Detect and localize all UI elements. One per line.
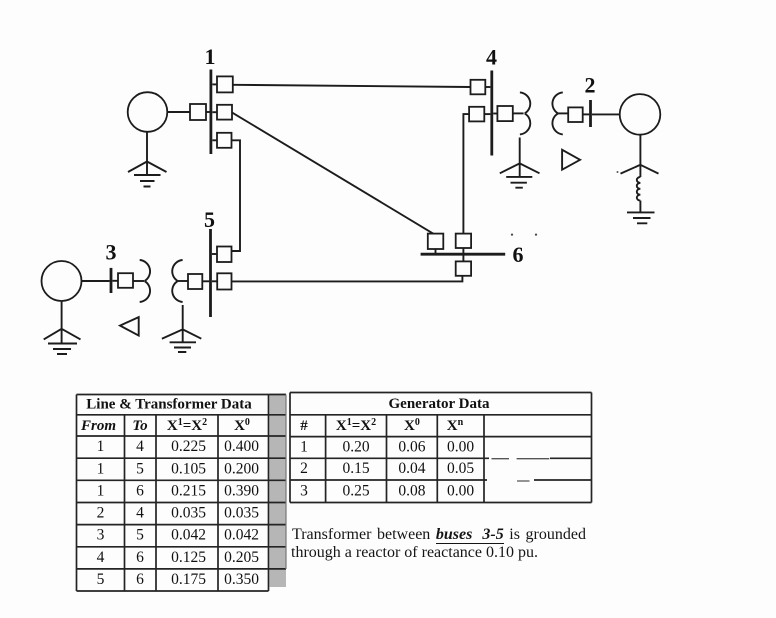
svg-text:0.390: 0.390 [224, 482, 259, 499]
svg-text:5: 5 [136, 527, 144, 544]
svg-text:1: 1 [300, 439, 308, 456]
breaker 1-4 [217, 76, 233, 92]
breaker 6-5 [456, 261, 471, 275]
transformer T42 winding B (bus 2 side) [552, 92, 562, 134]
white-out smudge over row line (scan artifact) [487, 453, 550, 486]
svg-text:1: 1 [97, 438, 105, 455]
svg-text:3: 3 [300, 482, 308, 499]
wire breaker to transformer T35 [133, 280, 144, 282]
svg-text:4: 4 [486, 45, 497, 70]
svg-text:0.00: 0.00 [447, 439, 474, 456]
wire stub breaker 4-1 to bus4 [485, 86, 490, 88]
svg-text:3: 3 [106, 240, 117, 265]
svg-text:2: 2 [97, 505, 105, 522]
svg-text:X0: X0 [234, 417, 250, 434]
ground (generator G2, grounded through reactor) [621, 135, 659, 177]
left table text [80, 397, 259, 589]
svg-text:5: 5 [97, 571, 105, 588]
breaker 1-5 [217, 133, 232, 148]
left table grid: Line & Transformer Data [77, 395, 287, 592]
svg-text:1: 1 [205, 44, 216, 69]
right table grid: Generator Data [290, 393, 592, 503]
svg-text:0.035: 0.035 [224, 505, 259, 522]
transformer T42 winding A (bus 4 side) [520, 92, 530, 134]
bus 5 [209, 229, 212, 317]
bus 6 [421, 253, 506, 256]
wire stub breaker to bus 2 [583, 113, 590, 115]
svg-text:0.25: 0.25 [342, 482, 369, 499]
wire line 1-6 (diagonal) [232, 112, 434, 233]
svg-text:0.225: 0.225 [171, 438, 206, 455]
generator G3 [42, 261, 82, 301]
ground (generator G3, wye grounded) [44, 301, 81, 354]
wire bus 2 to generator G2 [592, 113, 620, 115]
ground (generator G1, wye grounded) [128, 132, 167, 187]
wire breaker to bus 1 [206, 111, 210, 113]
wire stub bus1 to breaker 1-5 [212, 139, 217, 141]
transformer T35 winding A (bus 3 side) [140, 260, 150, 302]
svg-text:X0: X0 [404, 417, 420, 434]
svg-text:X1=X2: X1=X2 [336, 417, 376, 434]
breaker 1-6 [217, 105, 232, 120]
wire stub bus1 to breaker 1-4 [212, 83, 217, 85]
svg-text:6: 6 [513, 242, 524, 267]
dash remnants of erased lines [492, 459, 550, 481]
svg-text:0.205: 0.205 [224, 549, 259, 566]
svg-text:Line & Transformer Data: Line & Transformer Data [86, 397, 252, 413]
wire transformer to breaker T-5 [178, 280, 188, 282]
svg-text:5: 5 [136, 460, 144, 477]
wire stub bus3 to breaker 3-T [113, 280, 119, 282]
delta symbol (transformer T42 delta side) [562, 150, 580, 170]
svg-text:4: 4 [136, 505, 144, 522]
wire line 4-6 [463, 114, 469, 234]
svg-text:0.400: 0.400 [224, 438, 259, 455]
wire line 5-6 [232, 276, 463, 282]
speck dot C [617, 171, 619, 173]
wire stub bus5 to breaker 5-1 [212, 253, 217, 255]
breaker 6-4 [456, 234, 471, 248]
generator G2 [620, 94, 661, 135]
bus 2 [589, 100, 592, 127]
wire stub bus6 to breaker 6-5 [462, 254, 464, 261]
transformer T35 winding B (bus 5 side) [172, 260, 182, 302]
svg-text:4: 4 [136, 438, 144, 455]
note paragraph [292, 527, 586, 544]
svg-text:4: 4 [97, 549, 105, 566]
wire stub breaker 6-4 to bus6 [462, 248, 464, 253]
svg-text:1: 1 [97, 460, 105, 477]
breaker 5-1 [217, 247, 232, 263]
svg-text:6: 6 [136, 549, 144, 566]
svg-text:0.105: 0.105 [171, 460, 206, 477]
right table text [300, 396, 490, 499]
svg-text:0.042: 0.042 [224, 527, 259, 544]
wire stub bus1 to breaker 1-6 [212, 111, 217, 113]
wire breaker to transformer T42 [513, 112, 524, 114]
breaker T-2 [568, 107, 583, 122]
svg-text:0.05: 0.05 [447, 460, 474, 477]
reactor coil (G2 neutral) [637, 177, 641, 201]
delta symbol (transformer T35 delta side) [120, 317, 139, 336]
svg-text:6: 6 [136, 482, 144, 499]
wire transformer to breaker T-2 [558, 112, 568, 114]
breaker G1 [190, 104, 206, 120]
svg-text:6: 6 [136, 571, 144, 588]
bus 3 [110, 268, 113, 293]
svg-text:0.350: 0.350 [224, 571, 259, 588]
svg-text:X1=X2: X1=X2 [167, 417, 207, 434]
svg-text:0.125: 0.125 [171, 549, 206, 566]
wire line 1-5 [232, 140, 241, 251]
svg-text:2: 2 [585, 73, 596, 98]
bus 4 [490, 71, 493, 156]
speck dot B [535, 234, 537, 236]
svg-text:Generator Data: Generator Data [389, 396, 490, 412]
bus 1 [209, 70, 212, 155]
svg-text:0.06: 0.06 [398, 439, 425, 456]
ground bars (G2) [627, 201, 655, 224]
svg-text:0.04: 0.04 [398, 460, 425, 477]
svg-text:0.08: 0.08 [398, 482, 425, 499]
svg-text:0.042: 0.042 [171, 527, 206, 544]
svg-text:Xn: Xn [447, 417, 464, 434]
breaker T-5 [188, 274, 202, 289]
wire G1 to breaker [167, 111, 190, 113]
breaker 4-1 [471, 80, 486, 95]
svg-text:1: 1 [97, 482, 105, 499]
svg-text:0.00: 0.00 [447, 482, 474, 499]
ground (transformer T35 wye side) [162, 305, 201, 352]
svg-text:0.20: 0.20 [342, 439, 369, 456]
ground (transformer T42 wye side) [500, 138, 540, 188]
svg-text:0.175: 0.175 [171, 571, 206, 588]
gray separator strip [270, 394, 286, 588]
svg-text:0.215: 0.215 [171, 482, 206, 499]
wire stub breaker to bus 5 [202, 280, 209, 282]
svg-text:0.035: 0.035 [171, 505, 206, 522]
wire stub bus4 to breaker 4-T [493, 113, 497, 115]
svg-text:2: 2 [300, 460, 308, 477]
breaker 6-1 [428, 234, 444, 249]
wire stub breaker 6-1 to bus6 [435, 249, 437, 253]
speck dot A [511, 234, 513, 236]
generator G1 [128, 92, 168, 132]
svg-text:5: 5 [204, 207, 215, 232]
svg-text:3: 3 [97, 527, 105, 544]
svg-text:#: # [300, 418, 308, 434]
svg-text:0.200: 0.200 [224, 460, 259, 477]
wire line 1-4 [233, 85, 471, 87]
wire stub bus4 to breaker 4-6 [484, 113, 490, 115]
svg-text:From: From [80, 418, 116, 434]
wire stub bus5 to breaker 5-6 [212, 280, 217, 282]
breaker 3-T [118, 273, 133, 288]
breaker 4-T (transformer 4-2 HV breaker) [497, 106, 512, 121]
svg-text:0.15: 0.15 [342, 460, 369, 477]
breaker 4-6 [469, 107, 484, 122]
wire G3 to bus 3 [82, 280, 110, 282]
breaker 5-6 [217, 273, 231, 289]
svg-text:To: To [132, 418, 147, 434]
